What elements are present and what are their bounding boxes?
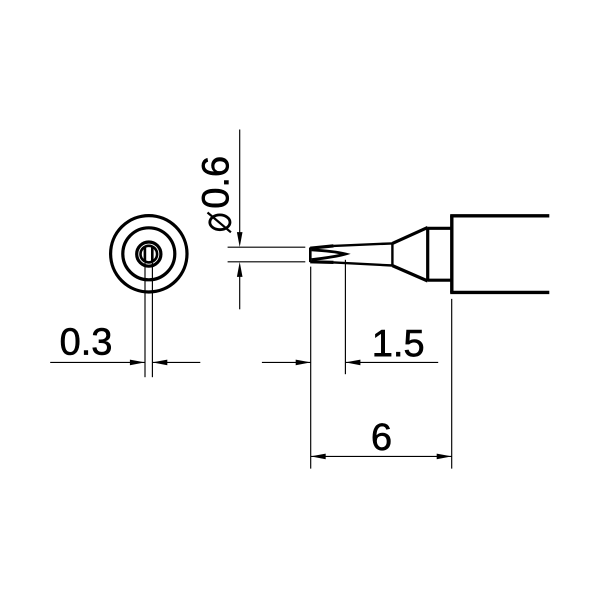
diameter symbol circle bbox=[210, 215, 230, 230]
arrow up-pointing at tip bottom edge bbox=[237, 262, 243, 277]
label 0.6 (rotated) bbox=[202, 158, 229, 208]
side view: chisel flat bottom edge bbox=[310, 260, 333, 264]
extension line left (0.3 dim) bbox=[144, 263, 146, 377]
arrow left-pointing at 0.3 right ext bbox=[152, 360, 167, 366]
end view: middle circle bbox=[123, 228, 175, 280]
end view: inner circle bbox=[141, 246, 158, 263]
arrow left-pointing at 6 left end bbox=[311, 454, 326, 460]
arrow right-pointing at 0.3 left ext bbox=[130, 360, 145, 366]
chisel slot right edge bbox=[151, 246, 154, 262]
diameter symbol slash bbox=[208, 213, 231, 233]
extension line tip top edge bbox=[228, 246, 306, 248]
dimension 1.5 left tail bbox=[262, 361, 311, 363]
side view: taper top line bbox=[334, 243, 393, 246]
extension line right (0.3 dim) bbox=[151, 263, 153, 377]
side view: body bottom edge bbox=[450, 291, 549, 294]
side view: cylinder bottom edge bbox=[428, 279, 452, 282]
side view: chisel flat face (lens) bbox=[312, 250, 346, 260]
side view: taper bottom line bbox=[334, 262, 393, 265]
side view: cone base vertical bbox=[426, 227, 429, 281]
end view: small circle bbox=[137, 242, 161, 266]
arrow left-pointing at 1.5 right ext bbox=[345, 360, 360, 366]
ø0.6 dimension vertical line lower bbox=[239, 275, 241, 310]
extension line body end (6 dim) bbox=[451, 299, 453, 469]
label 0.3 bbox=[61, 328, 111, 355]
dimension 6 line bbox=[311, 455, 452, 457]
side view: chisel flat top edge bbox=[310, 246, 333, 248]
extension line flat end (1.5 dim) bbox=[344, 260, 346, 374]
label 6 bbox=[373, 423, 391, 450]
label 1.5 bbox=[375, 330, 423, 357]
ø0.6 dimension vertical line upper bbox=[239, 130, 241, 235]
dimension 1.5 right tail bbox=[345, 361, 438, 363]
side view: cone bottom edge bbox=[392, 266, 427, 281]
side view: cylinder top edge bbox=[428, 227, 452, 230]
end view: outer circle bbox=[111, 216, 187, 292]
side view: body top edge bbox=[450, 214, 549, 217]
extension line tip bottom edge bbox=[228, 261, 306, 263]
dimension 0.3 left tail bbox=[50, 361, 145, 363]
chisel slot left edge bbox=[144, 246, 147, 262]
dimension 0.3 right tail bbox=[152, 361, 200, 363]
side view: tip end edge bbox=[309, 248, 312, 263]
side view: cone top edge bbox=[392, 227, 427, 243]
arrow right-pointing at 6 right end bbox=[437, 454, 452, 460]
side view: neck line bbox=[391, 243, 393, 265]
extension line tip end (1.5 and 6 dims) bbox=[310, 267, 312, 469]
arrow down-pointing at tip top edge bbox=[237, 232, 243, 247]
side view: body left edge bbox=[450, 215, 453, 292]
arrow right-pointing at 1.5 left ext bbox=[296, 360, 311, 366]
